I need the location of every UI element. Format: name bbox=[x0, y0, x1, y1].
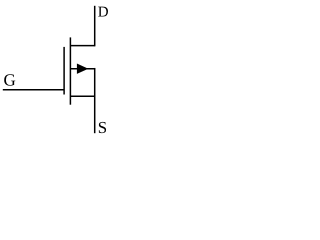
svg-text:G: G bbox=[4, 70, 16, 89]
svg-text:D: D bbox=[98, 4, 109, 20]
svg-text:S: S bbox=[98, 118, 107, 137]
